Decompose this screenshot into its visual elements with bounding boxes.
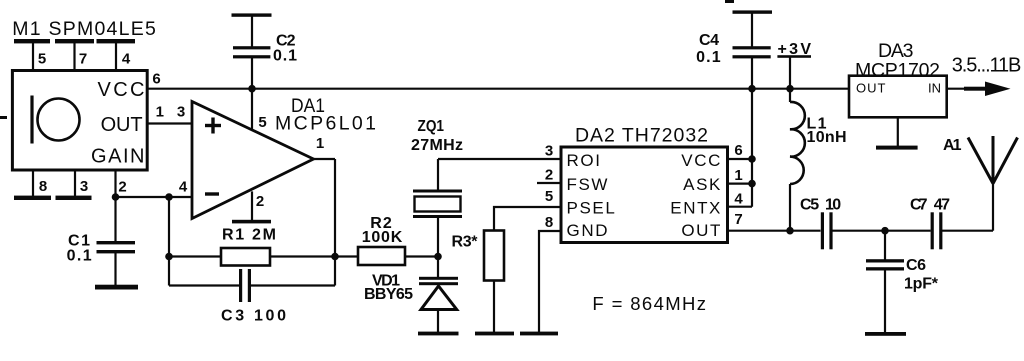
wire M1 OUT pin1 to op-amp pin3 [147,122,192,124]
junction node rail/C2/pin5 [248,85,256,93]
wire stub at left edge [0,116,7,119]
wire op-amp output [314,158,336,160]
IC DA3 box [849,76,947,118]
wire C1 to ground [114,252,116,286]
capacitor C7 plates [931,212,943,249]
svg-text:ROI: ROI [567,151,602,170]
wire C6 top lead [884,231,886,260]
wire R2 left lead [335,255,358,257]
op-amp minus input sign [205,192,219,195]
svg-text:VCC: VCC [681,151,722,170]
wire M1 top pin5 stub [32,43,34,71]
svg-text:ASK: ASK [683,175,722,194]
svg-text:OUT: OUT [681,221,722,240]
svg-text:ZQ1: ZQ1 [418,118,445,135]
wire R1 left lead [169,255,221,257]
ground above C4 [733,10,773,13]
svg-text:C6: C6 [906,257,926,274]
ground bar below M1 pin3 [56,196,92,200]
svg-text:4: 4 [122,50,131,67]
svg-text:R1 2M: R1 2M [222,226,276,243]
svg-text:4: 4 [179,179,188,196]
svg-text:C5: C5 [800,197,819,214]
svg-text:47: 47 [934,197,950,214]
wire C3 left segment [169,284,240,286]
svg-text:5: 5 [38,50,46,67]
microphone module M1 box [12,71,147,171]
junction node M1 pin2/C1 [112,193,120,201]
svg-text:10nH: 10nH [807,129,847,146]
wire DA2 OUT pin7 to C5 [728,230,821,232]
wire FSW pin2 stub [537,182,561,184]
ground bar above M1 pin7 [55,39,94,43]
svg-text:3: 3 [80,178,88,195]
wire ROI pin3 to crystal [438,158,561,160]
svg-text:ENTX: ENTX [670,198,722,217]
svg-text:OUT: OUT [856,81,886,96]
junction node C5/C6/C7 [881,227,889,235]
varactor VD1 cathode bars [419,277,458,285]
svg-text:5: 5 [545,188,553,205]
wire antenna down [992,183,994,231]
wire DA3 IN to arrow [947,88,986,90]
ground bar above M1 pin5 [14,39,50,43]
wire C6 to ground [884,270,886,333]
junction node op-amp pin4 feedback [165,193,173,201]
wire crystal bottom to varactor node [437,218,439,278]
crystal ZQ1 body [415,197,461,212]
svg-text:8: 8 [39,178,47,195]
resistor R3 body [484,231,504,281]
wire M1 bottom pin8 stub [32,170,34,196]
ground below VD1 [418,332,459,336]
wire C7 to antenna [942,230,994,232]
wire R3 to ground [493,281,495,333]
wire ASK pin1 [728,183,753,185]
svg-text:0.1: 0.1 [696,49,721,66]
wire op-amp pin5 from rail [251,89,253,131]
resistor R1 body [221,248,270,266]
svg-text:DA2 TH72032: DA2 TH72032 [575,125,708,147]
svg-text:PSEL: PSEL [567,198,617,217]
ground bar above M1 pin4 [97,39,136,43]
svg-text:F = 864MHz: F = 864MHz [592,293,706,314]
wire op-amp pin2 to ground [251,191,253,220]
svg-text:IN: IN [928,81,941,96]
wire M1 top pin4 stub [115,43,117,71]
IC DA2 box [561,147,728,243]
svg-text:8: 8 [545,214,553,231]
wire C3 right segment [251,284,336,286]
capacitor C3 plates [239,269,251,302]
junction node R2/ZQ1/VD1 [434,253,442,261]
ground below R3 [475,332,514,336]
wire R1 right lead [270,255,335,257]
varactor VD1 triangle [421,286,457,310]
op-amp plus input sign [205,118,221,134]
wire crystal top lead [437,159,439,190]
wire GND pin8 to ground [539,231,561,333]
ground below DA3 [876,146,918,150]
antenna A1 [968,136,1018,184]
svg-text:BBY65: BBY65 [364,286,413,303]
wire R2 right lead [405,255,438,257]
ground below C1 [95,285,138,290]
svg-text:7: 7 [79,50,87,67]
wire ENTX pin4 [728,206,753,208]
svg-text:GAIN: GAIN [91,146,145,168]
svg-text:7: 7 [734,211,742,228]
wire L1 bottom lead [789,184,791,231]
wire output vertical down [334,159,336,286]
svg-text:1: 1 [156,104,164,121]
resistor R2 body [358,247,405,265]
wire C5 to C6 node [833,230,931,232]
svg-text:A1: A1 [943,137,962,154]
microphone symbol [32,96,80,144]
wire feedback vertical left [168,197,170,286]
svg-text:C4: C4 [699,32,719,49]
svg-text:C7: C7 [910,197,928,214]
arrow shaft thick part [964,87,988,91]
wire C4 down through rail to DA2 VCC/ASK/ENTX [751,58,753,207]
op-amp DA1 triangle [192,102,314,219]
ground below DA2 GND [520,332,558,336]
arrow head 3.5...11B output [985,82,1011,97]
svg-text:3: 3 [545,143,553,160]
svg-text:6: 6 [734,142,742,159]
svg-text:0.1: 0.1 [273,48,297,65]
wire M1 pin2 down to node [114,170,116,197]
svg-text:1pF*: 1pF* [904,275,939,292]
junction node rail/+3V/L1 [786,85,794,93]
+3V supply bar [777,55,811,58]
capacitor C5 plates [821,212,833,249]
wire C2 ground stub [251,16,253,47]
svg-text:OUT: OUT [101,114,143,136]
svg-text:3.5...11B: 3.5...11B [952,55,1022,77]
svg-text:1: 1 [316,135,324,152]
junction node VCC pin6 [748,155,756,163]
wire varactor to ground [437,309,439,333]
svg-text:6: 6 [152,70,160,87]
svg-text:4: 4 [734,191,743,208]
svg-text:GND: GND [567,221,610,240]
crystal ZQ1 plates [413,190,462,219]
svg-text:MCP1702: MCP1702 [855,60,940,82]
wire node to op-amp pin4 [115,196,193,198]
artifact mark top edge [725,0,734,3]
svg-text:27MHz: 27MHz [411,137,463,154]
capacitor C4 plates [733,46,771,58]
ground above C2 [232,13,272,16]
svg-text:10: 10 [825,197,841,214]
ground bar below M1 pin8 [14,196,51,200]
wire node down to C1 [114,197,116,242]
svg-text:+3V: +3V [778,41,812,58]
svg-text:1: 1 [734,167,742,184]
junction node feedback/R1 [165,253,173,261]
wire M1 top pin7 stub [73,43,75,71]
svg-text:5: 5 [258,114,266,131]
svg-text:2: 2 [545,167,553,184]
wire C4 ground stub [751,13,753,47]
svg-text:100K: 100K [362,229,403,246]
svg-text:M1 SPM04LE5: M1 SPM04LE5 [12,18,156,40]
svg-text:3: 3 [177,104,185,121]
svg-text:2: 2 [256,193,264,210]
junction node L1/OUT wire [786,227,794,235]
svg-text:2: 2 [118,179,126,196]
svg-text:VCC: VCC [98,79,145,101]
capacitor C1 plates [97,241,136,253]
junction node ASK pin1 [748,180,756,188]
ground below op-amp pin2 [232,220,271,224]
inductor L1 coil [790,102,805,184]
capacitor C6 plates [866,259,904,270]
svg-text:R3*: R3* [452,233,479,250]
wire VCC pin6 [728,158,753,160]
capacitor C2 plates [233,46,270,58]
wire PSEL pin5 to R3 [494,207,561,231]
wire VCC rail from M1 pin6 to DA3 [147,88,849,90]
svg-text:MCP6L01: MCP6L01 [275,113,376,135]
svg-text:FSW: FSW [567,175,610,194]
ground below C6 [865,332,906,336]
junction node output/R1/R2/C3 [331,253,339,261]
wire DA3 ground stub [897,117,899,146]
wire +3V to rail [789,57,791,102]
wire C2 to rail [251,58,253,89]
svg-text:C3 100: C3 100 [221,307,286,324]
wire M1 bottom pin3 stub [74,170,76,196]
junction node rail/C4 [748,85,756,93]
svg-text:0.1: 0.1 [67,247,92,264]
